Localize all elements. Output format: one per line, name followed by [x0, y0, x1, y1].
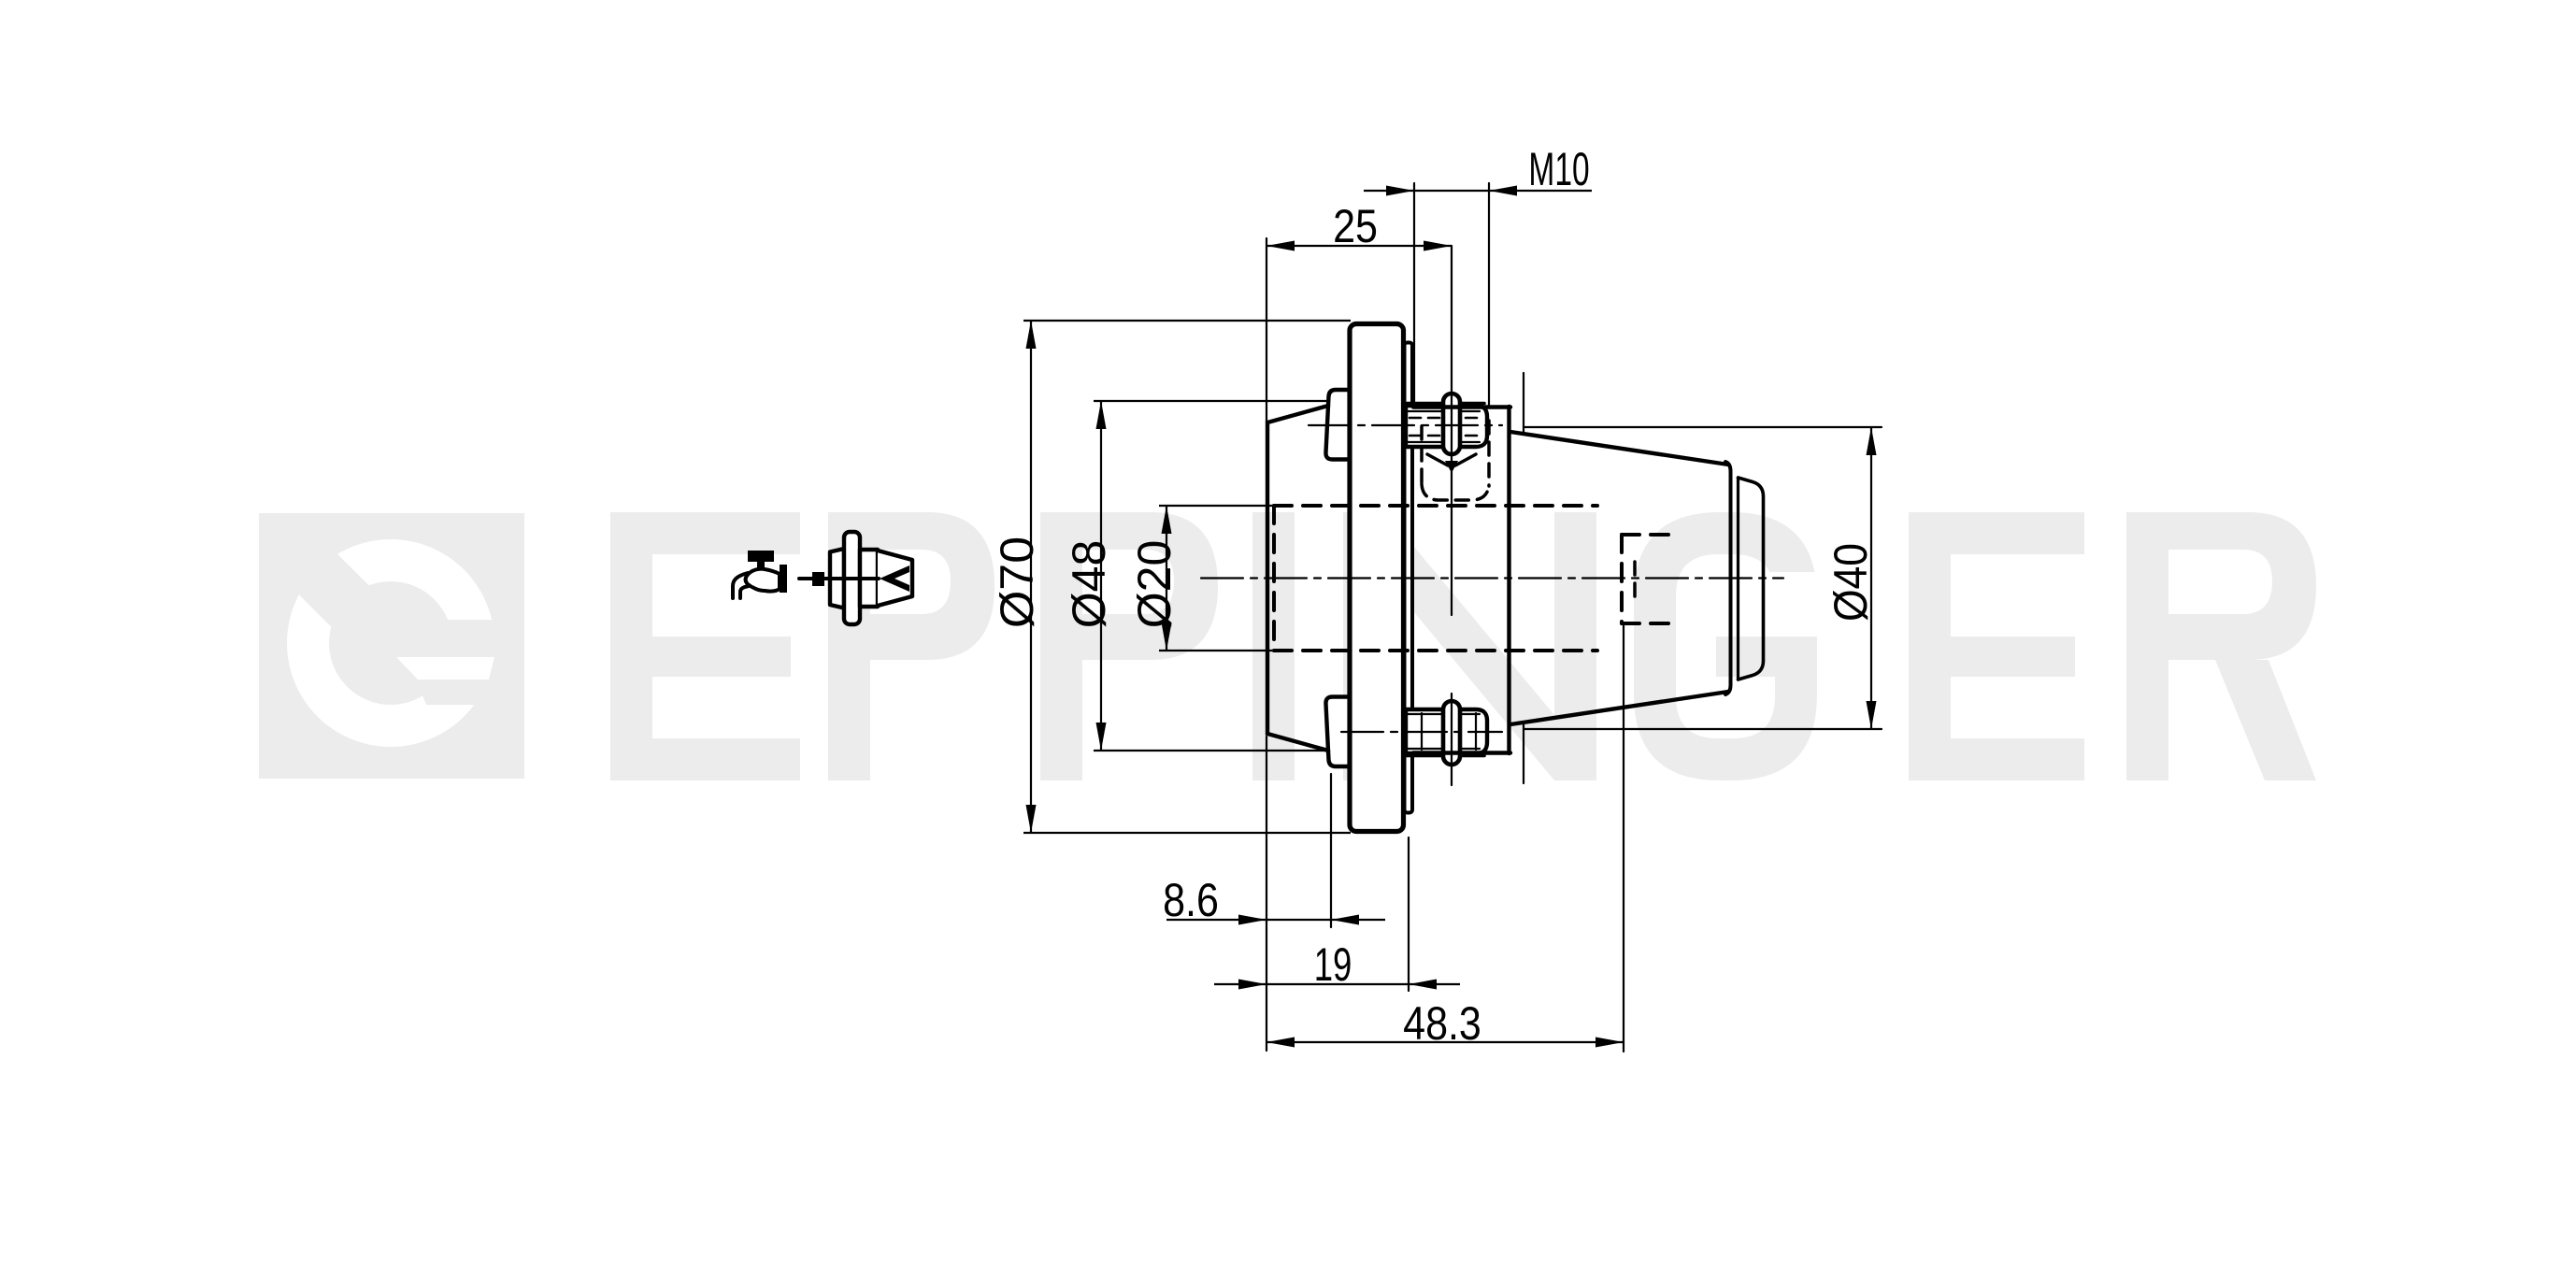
svg-text:8.6: 8.6: [1163, 874, 1219, 926]
svg-text:Ø20: Ø20: [1128, 540, 1181, 629]
svg-text:Ø40: Ø40: [1825, 543, 1878, 622]
svg-text:19: 19: [1314, 938, 1352, 991]
svg-text:Ø48: Ø48: [1063, 540, 1115, 629]
svg-text:48.3: 48.3: [1403, 997, 1481, 1050]
svg-text:Ø70: Ø70: [991, 537, 1043, 628]
svg-text:M10: M10: [1528, 143, 1589, 195]
svg-text:25: 25: [1333, 200, 1378, 252]
